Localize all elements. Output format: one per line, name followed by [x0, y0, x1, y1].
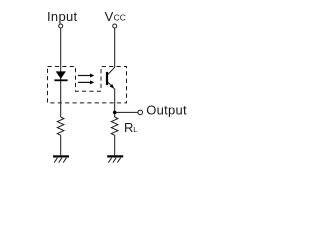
svg-text:V: V: [105, 9, 114, 24]
svg-text:R: R: [124, 120, 133, 135]
svg-text:CC: CC: [114, 13, 126, 23]
svg-text:L: L: [133, 125, 137, 134]
svg-text:Input: Input: [47, 9, 78, 24]
svg-text:Output: Output: [146, 102, 187, 117]
